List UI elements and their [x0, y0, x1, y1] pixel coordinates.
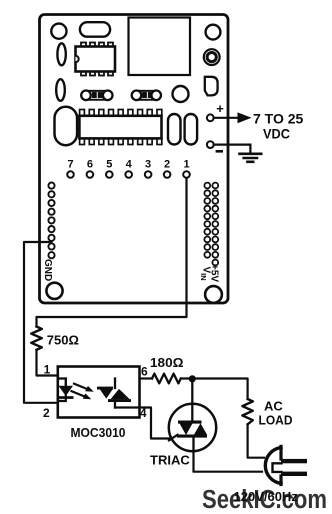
- prototyping square area: [129, 18, 191, 76]
- ring pad right: [204, 49, 220, 65]
- triac Q1 circle: [169, 404, 216, 451]
- svg-text:3: 3: [145, 159, 151, 171]
- wire junction down to triac: [191, 379, 193, 421]
- light emission arrows: [72, 384, 94, 400]
- jumper pad J1: [81, 91, 112, 101]
- svg-text:LOAD: LOAD: [259, 413, 293, 428]
- left header holes: [48, 183, 54, 259]
- resistor 750ohm: [31, 327, 42, 350]
- svg-text:750Ω: 750Ω: [47, 333, 79, 348]
- pad hole top-left: [51, 24, 66, 39]
- svg-text:7: 7: [67, 159, 73, 171]
- triac internals: [169, 421, 207, 452]
- jumper pad J2: [132, 91, 161, 101]
- optocoupler U3 MOC3010 box: [58, 367, 140, 418]
- resistor AC load: [242, 399, 252, 424]
- wire - to ground: [214, 145, 251, 153]
- IC U1 8-pin DIP footprint: [76, 43, 116, 76]
- photo-diac inside MOC3010: [97, 379, 131, 408]
- resistor 180 ohm: [152, 374, 181, 384]
- svg-text:120V/60Hz: 120V/60Hz: [234, 489, 299, 504]
- svg-text:7 TO 25: 7 TO 25: [253, 111, 304, 127]
- terminal - circle: [207, 141, 214, 148]
- slot hole left 2: [56, 79, 65, 101]
- wire AC load to plug: [248, 424, 264, 457]
- svg-text:AC: AC: [264, 399, 283, 414]
- svg-text:6: 6: [87, 159, 93, 171]
- svg-text:4: 4: [126, 159, 133, 171]
- wire GND to pin 2 of MOC: [24, 242, 58, 403]
- svg-text:GND: GND: [42, 259, 53, 281]
- svg-text:1: 1: [183, 159, 189, 171]
- arrowhead: [238, 112, 252, 123]
- wire 750 ohm to pin 1 of MOC: [37, 350, 58, 376]
- oval pad right of U2 b: [185, 114, 198, 145]
- mounting hole bottom-left: [46, 283, 62, 299]
- svg-text:1: 1: [44, 363, 51, 377]
- wire triac bottom to plug: [194, 451, 263, 472]
- ground: [240, 154, 262, 162]
- mounting hole bottom-right: [205, 286, 222, 303]
- wire 180 ohm to junction and AC load: [181, 379, 248, 400]
- wire pin6 to 180 ohm: [140, 377, 153, 379]
- I/O header holes 7..1: [67, 171, 190, 178]
- wire + to arrow: [214, 117, 238, 119]
- svg-text:TRIAC: TRIAC: [150, 453, 190, 468]
- oval pad right of U2 a: [168, 114, 181, 145]
- slot hole left 1: [57, 43, 65, 65]
- svg-text:+: +: [216, 101, 224, 116]
- oval pad top: [80, 22, 110, 37]
- wire pin4 to triac gate: [115, 408, 169, 439]
- junction node dot: [189, 375, 196, 382]
- svg-text:VDC: VDC: [263, 127, 290, 142]
- D-shaped pad right: [205, 77, 218, 96]
- right header holes column A: [204, 183, 210, 258]
- LED inside MOC3010: [59, 379, 74, 402]
- PCB board outline: [40, 15, 229, 304]
- svg-text:MOC3010: MOC3010: [71, 426, 126, 440]
- pad hole top-right: [206, 25, 221, 40]
- right header holes column B: [212, 183, 218, 266]
- svg-text:2: 2: [164, 159, 170, 171]
- oval pad left of U2: [55, 107, 78, 145]
- svg-text:6: 6: [141, 365, 148, 379]
- IC U2 14-pin DIP footprint: [79, 110, 161, 145]
- svg-text:5: 5: [106, 159, 112, 171]
- label -: [216, 150, 223, 153]
- wire pin1 to 750 ohm: [37, 178, 187, 327]
- terminal + circle: [207, 114, 214, 121]
- AC plug: [265, 446, 307, 484]
- pad hole mid-right: [173, 86, 189, 102]
- svg-text:2: 2: [43, 406, 50, 420]
- svg-text:180Ω: 180Ω: [150, 355, 184, 370]
